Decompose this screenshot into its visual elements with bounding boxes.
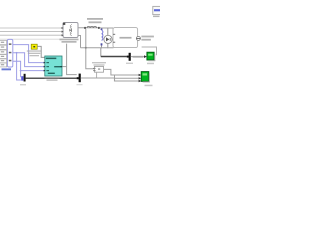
label subsystem blue — [2, 68, 12, 70]
resistor K1 yellow constant block — [31, 44, 37, 49]
capacitor B1 DC voltage source battery — [136, 36, 140, 40]
label scope2 — [145, 85, 153, 87]
wire purple W1 — [13, 45, 45, 63]
wire purple branch to mux1 lower — [17, 53, 22, 80]
wire voltage measurement tap — [86, 29, 94, 69]
label DC Machine — [120, 37, 132, 39]
node junction rail cross — [85, 47, 87, 49]
resistor S2 source block — [0, 45, 7, 49]
wire neutral faint — [0, 38, 60, 40]
label scope1 — [147, 63, 154, 64]
wire purple W3 — [13, 61, 45, 70]
wire speed measurement thick — [100, 48, 102, 57]
op-amp U2 DC machine block — [113, 28, 138, 48]
node junction J1 — [16, 52, 18, 54]
resistor S5 source block — [0, 59, 7, 63]
op-amp U1 thyristor bridge converter — [62, 23, 79, 38]
wire arrow into scope1 — [144, 55, 147, 58]
wire bridge minus output — [78, 36, 81, 48]
wire pulses vertical — [67, 44, 77, 75]
wire current measurement stem bottom — [107, 44, 109, 49]
wire arrow scope2 bottom — [139, 77, 142, 79]
wire bridge plus output — [78, 27, 101, 29]
resistor S1 source block — [0, 40, 7, 44]
wire mux2 to scope2 — [81, 78, 139, 81]
wire purple branch to mux1 upper — [20, 71, 23, 77]
node mux3 bus selector — [127, 53, 131, 61]
node junction J2 — [20, 70, 22, 72]
resistor S4 source block — [0, 55, 7, 59]
wire purple W2 — [13, 53, 45, 67]
wire vm bottom stub — [96, 73, 98, 79]
label constant — [27, 50, 42, 51]
wire phase C — [0, 34, 63, 36]
label speed signal — [133, 56, 144, 58]
op-amp powergui block — [153, 6, 161, 14]
transistor Q1 current measurement circle — [104, 35, 112, 43]
bridge label text — [60, 39, 79, 41]
label mux3 — [126, 63, 133, 64]
wire current measurement stem top — [107, 28, 109, 35]
wire bottom rail — [81, 47, 114, 49]
node mux1 — [21, 74, 25, 82]
op-amp scope1 green — [147, 52, 155, 61]
capacitor blue series RLC branch vertical — [101, 28, 103, 48]
label Smoothing Inductance — [87, 18, 103, 20]
label mux1 — [20, 84, 26, 85]
wire loop around scope1 — [142, 47, 157, 55]
wire arrow scope2 top — [139, 74, 142, 76]
node top rail — [101, 27, 113, 29]
label powergui — [153, 16, 160, 18]
wire speed to scope1 — [131, 56, 144, 58]
wire cyan output join — [62, 66, 67, 68]
label mux2 — [77, 84, 83, 85]
resistor VM voltage measurement block — [93, 66, 104, 72]
wire vm output to scope2 — [104, 69, 139, 75]
resistor S3 source block — [0, 50, 7, 54]
resistor L1 smoothing inductance — [84, 26, 100, 28]
label voltage measurement — [92, 62, 106, 63]
wire mux1 to mux2 thick — [26, 77, 77, 79]
label pulse generator — [45, 77, 60, 79]
wire phase A — [0, 27, 63, 29]
op-amp scope2 green — [141, 72, 150, 83]
node mux2 — [77, 74, 81, 83]
resistor S6 source block — [0, 63, 7, 67]
label DC Voltage Source — [141, 36, 154, 38]
wire branch to scope2 mid — [115, 75, 139, 78]
wire arrow scope2 third — [139, 80, 142, 82]
wire constant to pulse generator — [37, 46, 45, 57]
op-amp U3 pulse generator cyan — [44, 56, 62, 76]
op-amp U4 purple subsystem — [7, 39, 12, 67]
wire phase B — [0, 31, 63, 33]
